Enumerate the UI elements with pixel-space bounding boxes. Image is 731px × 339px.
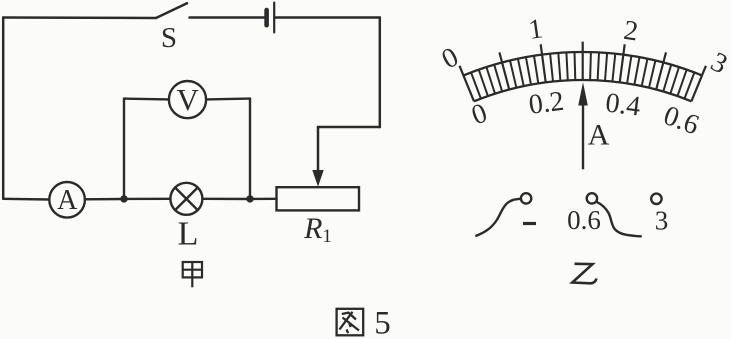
pointer needle	[582, 97, 584, 169]
wire: voltmeter branch left vertical	[123, 99, 125, 199]
wire: ammeter to node 1	[85, 198, 124, 201]
terminal 3 circle	[651, 194, 661, 204]
rheostat wiper arrowhead	[312, 170, 323, 187]
label 乙 (diagram yi) drawn strokes	[572, 264, 596, 284]
lamp L circle	[170, 183, 202, 215]
node junction dot 2	[246, 195, 253, 202]
caption 图 inner strokes	[342, 313, 356, 320]
caption 图 box	[337, 309, 364, 336]
terminal negative circle	[521, 193, 531, 203]
voltmeter V circle	[169, 81, 206, 118]
ammeter face: outer arc	[464, 52, 702, 75]
wire: left vertical side of circuit	[2, 18, 5, 199]
svg-text:1: 1	[527, 13, 545, 46]
wire: voltmeter branch right vertical	[249, 99, 251, 199]
wire: voltmeter branch left horizontal	[124, 97, 169, 100]
svg-text:R1: R1	[303, 212, 332, 247]
svg-text:0: 0	[437, 42, 464, 76]
lamp L cross stroke 2	[175, 188, 198, 211]
svg-text:0.6: 0.6	[659, 100, 702, 141]
wire: lamp to node 2	[202, 198, 250, 201]
ammeter A circle	[49, 182, 85, 218]
wire: switch to battery	[190, 16, 265, 19]
wire: lead to negative terminal	[476, 199, 520, 236]
ammeter face: scale ticks	[460, 66, 475, 102]
label 甲 (diagram jia) drawn strokes	[183, 262, 202, 287]
wire: node 1 to lamp	[124, 198, 171, 201]
wire: top left segment to switch	[3, 16, 156, 19]
svg-text:A: A	[57, 185, 78, 216]
wire: voltmeter branch right horizontal	[206, 97, 250, 100]
svg-text:2: 2	[622, 15, 640, 48]
svg-text:V: V	[177, 82, 200, 117]
svg-text:L: L	[178, 216, 199, 253]
wire: battery to right corner	[276, 16, 380, 19]
svg-text:3: 3	[655, 206, 669, 236]
svg-text:0.2: 0.2	[527, 86, 566, 121]
wire: node 2 to rheostat	[250, 198, 277, 201]
ammeter face: inner arc	[474, 80, 691, 101]
node junction dot 1	[120, 195, 127, 202]
svg-text:A: A	[588, 119, 610, 152]
resistor R1 (rheostat) box	[277, 187, 360, 210]
label minus terminal	[523, 222, 536, 225]
wire: bottom left to ammeter	[3, 198, 49, 201]
lamp L cross stroke 1	[175, 188, 198, 211]
wire: jog toward rheostat wiper	[318, 126, 380, 129]
switch S lever	[156, 3, 187, 18]
battery positive plate (long thin)	[273, 3, 275, 33]
svg-text:0.4: 0.4	[604, 87, 643, 122]
wire: right vertical down	[379, 18, 382, 128]
svg-text:0.6: 0.6	[567, 205, 601, 235]
wire: wiper vertical lead	[317, 127, 320, 172]
svg-text:3: 3	[706, 46, 731, 80]
pointer arrowhead	[578, 82, 588, 105]
battery negative plate (short thick)	[264, 10, 269, 25]
svg-text:5: 5	[374, 306, 391, 339]
svg-text:0: 0	[468, 98, 492, 132]
terminal 0.6 circle	[587, 193, 597, 203]
wire: lead from 0.6 terminal	[596, 202, 640, 237]
svg-text:S: S	[161, 22, 177, 54]
